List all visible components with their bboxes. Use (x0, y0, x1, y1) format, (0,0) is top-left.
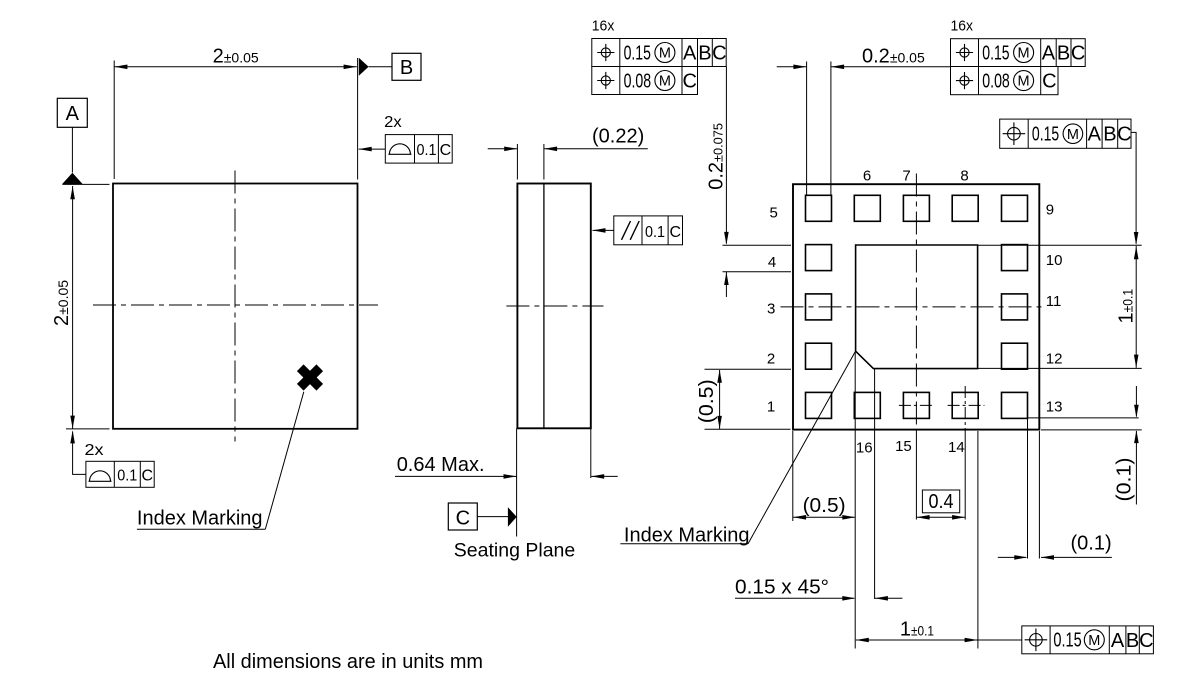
svg-text:C: C (440, 142, 452, 159)
svg-text:4: 4 (768, 254, 776, 271)
svg-text:C: C (712, 43, 726, 65)
svg-text:12: 12 (1046, 350, 1063, 367)
svg-text:B: B (1126, 630, 1139, 652)
svg-text:M: M (659, 46, 671, 62)
svg-text:14: 14 (948, 439, 965, 456)
svg-text:2±0.05: 2±0.05 (213, 45, 259, 67)
svg-text:15: 15 (895, 438, 912, 455)
svg-text:0.1: 0.1 (645, 224, 665, 241)
svg-text:11: 11 (1046, 293, 1062, 310)
svg-text:C: C (456, 507, 470, 529)
svg-text:0.4: 0.4 (929, 491, 954, 513)
svg-text:B: B (400, 57, 413, 79)
svg-text:0.15 x 45°: 0.15 x 45° (735, 577, 829, 599)
svg-text:(0.22): (0.22) (592, 126, 644, 148)
svg-text:10: 10 (1046, 252, 1063, 269)
svg-text:0.08: 0.08 (624, 70, 652, 92)
svg-text:8: 8 (960, 168, 968, 185)
svg-text:9: 9 (1046, 202, 1054, 219)
svg-text:M: M (1018, 74, 1030, 90)
svg-text:0.64 Max.: 0.64 Max. (397, 454, 485, 476)
svg-text:0.15: 0.15 (1053, 630, 1081, 652)
svg-text:M: M (659, 74, 671, 90)
svg-text:M: M (1018, 46, 1030, 62)
svg-text:7: 7 (902, 168, 910, 185)
svg-text:5: 5 (770, 204, 778, 221)
svg-text:B: B (698, 43, 711, 65)
svg-text:13: 13 (1046, 398, 1063, 415)
svg-text:0.1: 0.1 (417, 142, 437, 159)
svg-text:(0.5): (0.5) (696, 379, 718, 423)
svg-text:A: A (1111, 630, 1125, 652)
svg-text:C: C (682, 71, 696, 93)
svg-text:0.2±0.05: 0.2±0.05 (862, 46, 925, 68)
svg-text:M: M (1067, 127, 1079, 143)
svg-text:2±0.05: 2±0.05 (51, 280, 73, 326)
svg-text:A: A (683, 43, 697, 65)
svg-text:0.15: 0.15 (982, 42, 1009, 64)
svg-text:C: C (1117, 124, 1131, 146)
svg-text:All dimensions are in units mm: All dimensions are in units mm (213, 651, 483, 673)
svg-text:(0.1): (0.1) (1114, 458, 1136, 502)
svg-text:0.1: 0.1 (117, 467, 137, 484)
svg-text:(0.1): (0.1) (1071, 532, 1112, 554)
svg-text:(0.5): (0.5) (803, 495, 846, 517)
svg-text:C: C (1139, 630, 1153, 652)
svg-text:2: 2 (767, 351, 775, 368)
svg-text:C: C (1042, 71, 1056, 93)
svg-text:Index Marking: Index Marking (137, 508, 263, 530)
svg-text:3: 3 (767, 301, 775, 318)
svg-text:6: 6 (863, 168, 871, 185)
svg-text:B: B (1103, 124, 1116, 146)
svg-text:2x: 2x (85, 442, 104, 459)
svg-text:16x: 16x (951, 18, 974, 35)
svg-text:C: C (1071, 43, 1085, 65)
svg-text:C: C (670, 224, 682, 241)
svg-text:16: 16 (856, 440, 873, 457)
svg-text:C: C (142, 467, 154, 484)
svg-text:A: A (1088, 124, 1102, 146)
svg-text:B: B (1057, 43, 1070, 65)
svg-text:0.08: 0.08 (982, 71, 1010, 93)
svg-text:0.15: 0.15 (624, 42, 651, 64)
svg-text:16x: 16x (592, 18, 615, 35)
svg-text:0.15: 0.15 (1032, 123, 1059, 145)
svg-text:1: 1 (767, 399, 775, 416)
svg-text:M: M (1088, 633, 1100, 649)
svg-text:Seating Plane: Seating Plane (454, 540, 575, 562)
svg-text:A: A (66, 103, 80, 125)
svg-text:A: A (1042, 43, 1056, 65)
svg-text:2x: 2x (384, 114, 402, 131)
